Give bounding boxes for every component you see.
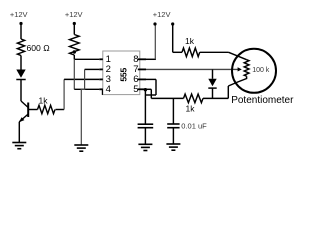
svg-text:4: 4	[106, 84, 111, 95]
svg-text:+12V: +12V	[65, 10, 83, 19]
svg-text:100 k: 100 k	[252, 67, 270, 74]
svg-text:1k: 1k	[39, 96, 49, 106]
svg-text:555: 555	[118, 68, 128, 82]
svg-text:1k: 1k	[185, 36, 195, 46]
svg-text:1k: 1k	[186, 104, 196, 114]
svg-text:+12V: +12V	[10, 10, 28, 19]
svg-text:0.01 uF: 0.01 uF	[181, 121, 207, 130]
svg-text:5: 5	[133, 84, 138, 95]
svg-text:+12V: +12V	[153, 10, 171, 19]
svg-text:Potentiometer: Potentiometer	[231, 95, 294, 106]
svg-text:600 Ω: 600 Ω	[27, 43, 51, 53]
